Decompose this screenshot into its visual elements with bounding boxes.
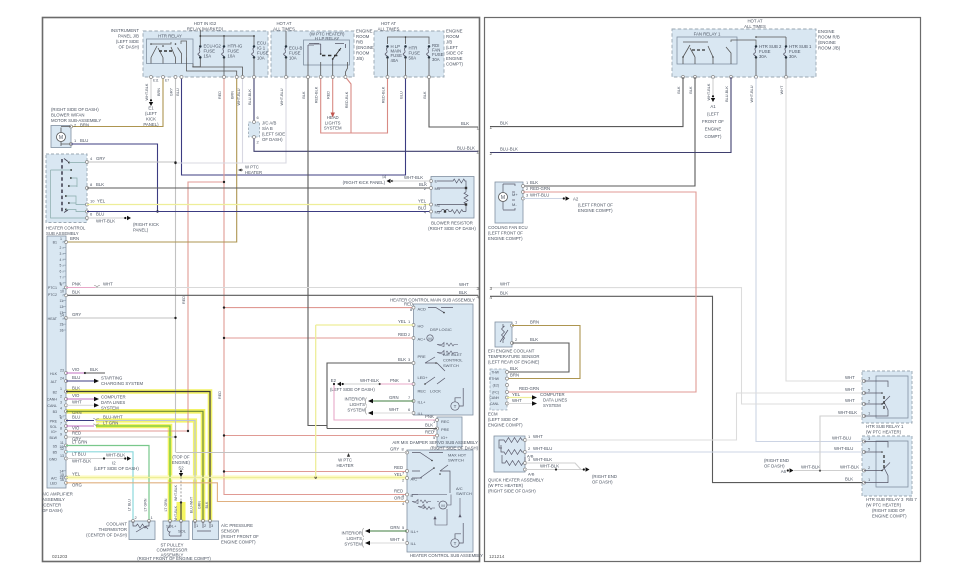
svg-text:10A: 10A xyxy=(289,56,297,61)
svg-text:A/C: A/C xyxy=(51,477,57,481)
svg-text:8: 8 xyxy=(60,281,62,285)
pins along dashed box bottoms xyxy=(150,76,153,79)
svg-text:S/A B: S/A B xyxy=(262,126,273,131)
svg-text:DATA LINES: DATA LINES xyxy=(101,400,125,405)
row: LT GRN to thermistor xyxy=(65,444,68,447)
svg-text:RED: RED xyxy=(72,431,81,436)
svg-text:4: 4 xyxy=(60,258,62,262)
svg-text:10: 10 xyxy=(60,290,64,294)
svg-text:BLOWER W/FAN: BLOWER W/FAN xyxy=(51,113,84,118)
rows: VIO WHT computer data lines xyxy=(65,398,68,401)
svg-text:GRY: GRY xyxy=(390,447,399,452)
svg-text:HEAT: HEAT xyxy=(48,317,58,321)
svg-text:LED+: LED+ xyxy=(418,375,429,380)
row: LT BLU to thermistor xyxy=(65,450,68,453)
pink loop to REC box xyxy=(334,384,437,420)
svg-text:WHT-BLK: WHT-BLK xyxy=(174,505,178,522)
svg-text:PRE: PRE xyxy=(441,427,450,432)
svg-text:1: 1 xyxy=(60,237,62,241)
svg-text:ILL+: ILL+ xyxy=(418,400,427,405)
svg-text:BLOWER RESISTOR: BLOWER RESISTOR xyxy=(431,221,473,226)
svg-text:(LEFT FRONT OF: (LEFT FRONT OF xyxy=(578,203,613,208)
svg-text:WHT-BLK: WHT-BLK xyxy=(145,83,149,100)
svg-text:DSP LOGIC: DSP LOGIC xyxy=(430,327,452,332)
svg-text:CANH: CANH xyxy=(47,398,58,402)
svg-text:YEL: YEL xyxy=(72,472,81,477)
svg-text:GRN: GRN xyxy=(198,501,202,509)
row: VIO/BLK xyxy=(65,372,68,375)
row: YEL long xyxy=(65,476,68,479)
svg-text:LIGHTS: LIGHTS xyxy=(346,536,362,541)
svg-text:BLK: BLK xyxy=(96,182,104,187)
svg-text:RED: RED xyxy=(327,91,331,99)
svg-text:E2: E2 xyxy=(331,378,337,383)
left page border xyxy=(43,18,480,562)
svg-text:WHT: WHT xyxy=(103,282,113,287)
svg-text:RED: RED xyxy=(218,391,222,399)
svg-text:24: 24 xyxy=(60,377,64,381)
svg-text:W PTC: W PTC xyxy=(338,458,352,463)
svg-text:HTR SUB RELAY 1: HTR SUB RELAY 1 xyxy=(866,424,904,429)
svg-text:40A: 40A xyxy=(391,58,399,63)
svg-text:CHARGING SYSTEM: CHARGING SYSTEM xyxy=(101,381,143,386)
svg-text:LOCK: LOCK xyxy=(430,389,441,394)
svg-text:BLW: BLW xyxy=(49,436,57,440)
svg-text:ACD: ACD xyxy=(418,307,427,312)
svg-text:10A: 10A xyxy=(257,56,265,61)
svg-text:(LEFT REAR OF ENGINE): (LEFT REAR OF ENGINE) xyxy=(488,360,540,365)
blower motor box xyxy=(51,126,71,148)
svg-text:121214: 121214 xyxy=(489,554,505,559)
row: RED to vertical 188 xyxy=(65,430,68,433)
svg-text:2: 2 xyxy=(60,246,62,250)
svg-text:THERMISTOR: THERMISTOR xyxy=(99,527,127,532)
svg-text:E7: E7 xyxy=(165,79,169,83)
svg-text:WHT: WHT xyxy=(459,282,469,287)
svg-text:J/B): J/B) xyxy=(356,56,364,61)
svg-text:BLU-BLK: BLU-BLK xyxy=(725,86,729,102)
svg-text:10: 10 xyxy=(90,199,95,204)
svg-text:WHT: WHT xyxy=(500,282,510,287)
svg-text:BLK: BLK xyxy=(845,477,853,482)
pin3 short ground xyxy=(523,198,564,200)
svg-text:(RIGHT SIDE OF DASH): (RIGHT SIDE OF DASH) xyxy=(428,226,476,231)
svg-text:RED-BLK: RED-BLK xyxy=(382,86,386,103)
svg-text:3: 3 xyxy=(60,401,62,405)
svg-text:THW: THW xyxy=(491,371,500,375)
svg-text:COMPT): COMPT) xyxy=(705,134,723,139)
svg-text:(RIGHT KICK: (RIGHT KICK xyxy=(133,222,159,227)
HTR SUB RELAY 1 xyxy=(862,371,912,423)
svg-text:WHT: WHT xyxy=(845,387,855,392)
svg-text:HTR SUB RELAY 3: HTR SUB RELAY 3 xyxy=(866,497,904,502)
svg-text:A/B: A/B xyxy=(528,472,535,477)
svg-text:WHT-BLK: WHT-BLK xyxy=(540,464,559,469)
svg-text:M+: M+ xyxy=(512,192,518,197)
svg-text:OF DASH): OF DASH) xyxy=(592,480,613,485)
svg-text:PTC2: PTC2 xyxy=(48,293,57,297)
svg-text:BLK: BLK xyxy=(419,182,427,187)
svg-text:STARTING: STARTING xyxy=(101,376,123,381)
svg-text:BLU-BLK: BLU-BLK xyxy=(457,146,475,151)
svg-text:15: 15 xyxy=(60,476,64,480)
svg-text:OF DASH): OF DASH) xyxy=(42,508,63,513)
svg-text:PRE: PRE xyxy=(50,420,58,424)
internal pin labels xyxy=(47,241,58,486)
svg-text:WHT-BLK: WHT-BLK xyxy=(360,378,379,383)
wire RED arrow to headlights xyxy=(332,77,334,113)
svg-text:(LEFT SIDE OF DASH): (LEFT SIDE OF DASH) xyxy=(330,387,375,392)
svg-text:HEATER CONTROL: HEATER CONTROL xyxy=(46,226,86,231)
svg-text:BLK: BLK xyxy=(500,121,508,126)
svg-text:M: M xyxy=(428,336,431,341)
svg-text:GRN: GRN xyxy=(390,525,400,530)
svg-text:(RIGHT END: (RIGHT END xyxy=(592,474,617,479)
svg-text:A6: A6 xyxy=(781,469,787,474)
svg-text:(LEFT SIDE: (LEFT SIDE xyxy=(116,39,139,44)
svg-text:2: 2 xyxy=(489,151,492,156)
I4 ground to resistor pin 1 xyxy=(387,179,394,183)
svg-text:ORG: ORG xyxy=(72,483,82,488)
svg-text:HOT AT: HOT AT xyxy=(381,21,396,26)
svg-text:BRN: BRN xyxy=(157,88,161,96)
svg-text:T: T xyxy=(454,404,457,409)
svg-text:4: 4 xyxy=(477,295,480,300)
svg-text:SYSTEM: SYSTEM xyxy=(347,408,365,413)
svg-text:YEL: YEL xyxy=(97,199,106,204)
svg-text:RED: RED xyxy=(425,430,434,435)
svg-text:ENGINE: ENGINE xyxy=(446,56,463,61)
svg-text:WHT: WHT xyxy=(845,398,855,403)
svg-text:ROOM R/B: ROOM R/B xyxy=(818,35,840,40)
svg-text:(CENTER OF DASH): (CENTER OF DASH) xyxy=(86,533,127,538)
svg-text:WHT: WHT xyxy=(72,399,82,404)
A/C pressure sensor xyxy=(193,521,219,540)
svg-text:CONTROL: CONTROL xyxy=(443,358,463,363)
svg-text:ECM: ECM xyxy=(488,412,498,417)
svg-text:ALL TIMES: ALL TIMES xyxy=(378,27,400,32)
svg-text:WHT-BLU: WHT-BLU xyxy=(530,193,549,198)
svg-text:OF DASH): OF DASH) xyxy=(764,464,785,469)
svg-text:021203: 021203 xyxy=(52,554,68,559)
svg-text:HEATER: HEATER xyxy=(245,170,262,175)
HTR SUB RELAY 3 xyxy=(862,436,912,496)
svg-text:ILL+: ILL+ xyxy=(411,529,420,534)
svg-text:ROOM: ROOM xyxy=(356,51,370,56)
svg-text:ALL TIMES: ALL TIMES xyxy=(273,27,295,32)
svg-text:5: 5 xyxy=(60,264,62,268)
svg-text:WHT-BLK: WHT-BLK xyxy=(96,219,115,224)
svg-text:COMPUTER: COMPUTER xyxy=(540,392,565,397)
svg-text:BLK: BLK xyxy=(500,290,508,295)
wire BLK to node 1 xyxy=(429,77,478,127)
svg-text:(LEFT SIDE: (LEFT SIDE xyxy=(262,132,285,137)
HTR relay inner box xyxy=(147,39,194,64)
svg-text:WHT-BLK: WHT-BLK xyxy=(404,175,423,180)
svg-text:SYSTEM: SYSTEM xyxy=(324,126,342,131)
svg-text:WHT: WHT xyxy=(533,434,543,439)
svg-text:YEL: YEL xyxy=(398,319,407,324)
svg-text:(LEFT: (LEFT xyxy=(446,45,458,50)
svg-text:BLK: BLK xyxy=(423,91,427,99)
svg-text:PANEL): PANEL) xyxy=(133,228,149,233)
wire BRN 2 to A/C amplifier pin 1 xyxy=(66,77,237,242)
svg-text:COMPUTER: COMPUTER xyxy=(101,395,126,400)
svg-text:BLK: BLK xyxy=(461,121,469,126)
svg-text:WHT-BLK: WHT-BLK xyxy=(106,453,125,458)
cooling fan ECU xyxy=(495,182,523,223)
switch internals xyxy=(61,159,63,212)
svg-text:BLU: BLU xyxy=(176,88,180,96)
svg-text:GRY: GRY xyxy=(72,312,81,317)
svg-text:COMPT): COMPT) xyxy=(446,62,464,67)
svg-text:WHT-BLU: WHT-BLU xyxy=(834,446,853,451)
svg-text:BLK: BLK xyxy=(510,366,518,371)
svg-text:ENGINE COMPT): ENGINE COMPT) xyxy=(578,208,613,213)
compressor box xyxy=(163,521,189,540)
node3 WHT xyxy=(490,288,864,404)
svg-text:S5: S5 xyxy=(53,445,57,449)
pins on bottom edge xyxy=(682,76,685,79)
svg-text:WHT: WHT xyxy=(389,407,399,412)
svg-text:PTC1: PTC1 xyxy=(48,286,57,290)
svg-text:BLU: BLU xyxy=(72,375,80,380)
svg-text:CANH: CANH xyxy=(489,396,499,400)
svg-text:FRONT OF: FRONT OF xyxy=(702,119,724,124)
svg-text:B3: B3 xyxy=(53,410,57,414)
svg-text:RED-BLK: RED-BLK xyxy=(345,91,349,108)
svg-text:HEATER CONTROL MAIN SUB ASSEMB: HEATER CONTROL MAIN SUB ASSEMBLY xyxy=(390,298,475,303)
svg-text:WHT-BLK: WHT-BLK xyxy=(838,410,857,415)
svg-text:WHT-BLK: WHT-BLK xyxy=(840,465,859,470)
fuse HTR-IG xyxy=(222,45,226,59)
svg-text:7: 7 xyxy=(60,422,62,426)
fuse ECU-IG1 xyxy=(252,45,256,59)
wire WHT-BLK to ground E1 xyxy=(150,77,152,100)
svg-text:R/B 7: R/B 7 xyxy=(906,497,917,502)
wire BRN to blower motor xyxy=(71,77,163,127)
wire WHT-BLU from ECU-B fuse to gray junction xyxy=(176,77,287,163)
heater control sub assembly box xyxy=(46,154,87,223)
svg-text:2: 2 xyxy=(60,395,62,399)
svg-text:REC: REC xyxy=(441,419,450,424)
red loop ECU to ECM xyxy=(507,192,696,392)
pin stubs and numbers xyxy=(60,237,64,482)
wire GRY long vertical xyxy=(175,77,177,452)
svg-text:30A: 30A xyxy=(759,54,767,59)
svg-text:4: 4 xyxy=(489,295,492,300)
svg-text:PNK: PNK xyxy=(72,282,81,287)
row: BLK node4 xyxy=(65,294,68,297)
svg-text:RELAY (MARKED): RELAY (MARKED) xyxy=(187,27,224,32)
svg-text:ENGINE COMPT): ENGINE COMPT) xyxy=(872,514,907,519)
svg-text:SOL: SOL xyxy=(50,425,57,429)
svg-text:LT GRN: LT GRN xyxy=(164,498,168,511)
svg-text:INTERIOR: INTERIOR xyxy=(341,531,362,536)
REC connector box xyxy=(437,417,462,447)
wire RED main tree xyxy=(66,77,437,495)
svg-text:HLK: HLK xyxy=(50,372,58,376)
svg-text:(RIGHT END: (RIGHT END xyxy=(764,458,789,463)
svg-text:ETHW: ETHW xyxy=(489,377,500,381)
svg-text:SYSTEM: SYSTEM xyxy=(543,403,561,408)
svg-text:YEL: YEL xyxy=(394,472,403,477)
svg-text:J/B: J/B xyxy=(446,40,452,45)
svg-text:LIGHTS: LIGHTS xyxy=(325,120,341,125)
svg-text:(W PTC HEATER): (W PTC HEATER) xyxy=(488,483,524,488)
svg-text:BLK: BLK xyxy=(677,86,681,94)
svg-text:(CENTER: (CENTER xyxy=(42,503,61,508)
svg-text:BLU: BLU xyxy=(96,212,104,217)
blower resistor box xyxy=(431,177,474,219)
svg-text:ENGINE COMPT): ENGINE COMPT) xyxy=(221,540,256,545)
svg-text:(ENGINE: (ENGINE xyxy=(356,45,374,50)
svg-text:I2: I2 xyxy=(112,461,116,466)
svg-text:PNK: PNK xyxy=(390,378,399,383)
svg-text:SOL: SOL xyxy=(178,529,187,534)
svg-text:BLK: BLK xyxy=(205,501,209,508)
svg-text:ALT: ALT xyxy=(51,380,58,384)
svg-text:YEL: YEL xyxy=(512,392,521,397)
svg-text:LIGHTS: LIGHTS xyxy=(349,402,365,407)
node4 BLK row xyxy=(66,294,478,296)
vertical wire labels top xyxy=(145,83,427,399)
svg-text:B5: B5 xyxy=(53,451,57,455)
svg-text:YEL: YEL xyxy=(418,199,427,204)
svg-text:BLK: BLK xyxy=(530,337,538,342)
svg-text:(RIGHT SIDE OF DASH): (RIGHT SIDE OF DASH) xyxy=(488,489,536,494)
FAN relay inner box xyxy=(677,37,737,64)
svg-text:(LEFT: (LEFT xyxy=(707,112,719,117)
svg-text:WHT-BLU: WHT-BLU xyxy=(237,88,241,105)
glow highlight under wires xyxy=(66,392,210,522)
svg-text:5: 5 xyxy=(60,415,62,419)
row: ORG xyxy=(65,481,68,484)
svg-text:AIR INLET: AIR INLET xyxy=(443,352,463,357)
svg-text:A/C PRESSURE: A/C PRESSURE xyxy=(221,523,253,528)
svg-text:H LP RELAY: H LP RELAY xyxy=(315,36,340,41)
svg-text:SENSOR: SENSOR xyxy=(221,529,239,534)
svg-text:(W PTC HEATER): (W PTC HEATER) xyxy=(866,503,902,508)
svg-text:1: 1 xyxy=(489,125,492,130)
relay output jogs to pins at 236.7/242.5 xyxy=(187,64,243,78)
svg-text:ENGINE: ENGINE xyxy=(446,29,463,34)
svg-text:BLU-BLK: BLU-BLK xyxy=(500,147,518,152)
svg-text:M-: M- xyxy=(512,202,517,207)
svg-text:7: 7 xyxy=(60,276,62,280)
svg-text:COOLING FAN ECU: COOLING FAN ECU xyxy=(488,225,528,230)
svg-text:30A: 30A xyxy=(432,57,440,62)
fuses xyxy=(754,45,758,59)
svg-text:BRN: BRN xyxy=(70,236,79,241)
row: BLK glow (wire) xyxy=(65,390,68,393)
ECM xyxy=(490,369,507,410)
svg-text:M: M xyxy=(501,195,505,201)
svg-text:PANEL): PANEL) xyxy=(143,122,159,127)
svg-text:BLU: BLU xyxy=(400,91,404,99)
svg-text:HEATER: HEATER xyxy=(336,463,353,468)
wire BLK to cooling fan ECU pin1 xyxy=(523,77,695,186)
svg-text:BLU: BLU xyxy=(72,415,80,420)
lamp bottom xyxy=(451,539,459,547)
svg-text:SYSTEM: SYSTEM xyxy=(101,406,119,411)
wire BLU-BLK node2 xyxy=(490,77,731,153)
svg-text:BRN: BRN xyxy=(231,91,235,99)
svg-text:(TOP OF: (TOP OF xyxy=(172,455,190,460)
svg-text:ROOM J/B): ROOM J/B) xyxy=(818,46,841,51)
svg-text:ENGINE: ENGINE xyxy=(705,127,722,132)
svg-text:(RIGHT FRONT OF ENGINE COMPT): (RIGHT FRONT OF ENGINE COMPT) xyxy=(137,556,211,561)
svg-text:BLU-BLK: BLU-BLK xyxy=(248,89,252,105)
A/C amplifier box xyxy=(47,236,66,488)
svg-text:REC: REC xyxy=(418,389,427,394)
svg-text:WHT-BLU: WHT-BLU xyxy=(832,436,851,441)
row: GRN glow xyxy=(65,410,68,413)
wire BLK node1 xyxy=(490,77,683,127)
svg-text:HTR RELAY: HTR RELAY xyxy=(158,34,182,39)
svg-text:SYSTEM: SYSTEM xyxy=(344,542,362,547)
svg-text:R/B: R/B xyxy=(356,40,363,45)
row: BLU / BLU-WHT xyxy=(65,419,68,422)
svg-text:BRN: BRN xyxy=(510,373,519,378)
interior lights arrows upper xyxy=(373,400,414,402)
svg-text:ROOM: ROOM xyxy=(446,34,460,39)
engine room R/B dashed box xyxy=(672,29,816,77)
svg-text:ENGINE COMPT): ENGINE COMPT) xyxy=(488,423,523,428)
svg-text:AC+: AC+ xyxy=(418,337,427,342)
GRY row to damper switch xyxy=(176,452,408,454)
svg-text:M: M xyxy=(59,135,63,141)
svg-text:WHT-BLK: WHT-BLK xyxy=(72,458,91,463)
svg-text:GRN: GRN xyxy=(389,395,399,400)
row: PNK/WHT node3 xyxy=(65,286,68,289)
svg-text:WHT-BLU: WHT-BLU xyxy=(533,446,552,451)
svg-text:ENGINE COMPT): ENGINE COMPT) xyxy=(488,236,523,241)
svg-text:(LEFT SIDE OF: (LEFT SIDE OF xyxy=(488,417,519,422)
svg-text:GND: GND xyxy=(49,458,57,462)
svg-text:B1: B1 xyxy=(53,241,57,245)
svg-text:IG+: IG+ xyxy=(51,430,57,434)
svg-text:BLK: BLK xyxy=(90,367,98,372)
svg-text:RED: RED xyxy=(404,302,413,307)
svg-text:W PTC: W PTC xyxy=(245,165,259,170)
vertical wire labels above bottom boxes xyxy=(128,496,210,513)
svg-text:(LEFT SIDE OF DASH): (LEFT SIDE OF DASH) xyxy=(94,466,139,471)
svg-text:3: 3 xyxy=(489,286,492,291)
svg-text:T: T xyxy=(454,541,457,546)
svg-text:ENGINE: ENGINE xyxy=(818,29,835,34)
svg-text:BRN: BRN xyxy=(530,320,539,325)
row: VIO / LT GRN glow xyxy=(65,425,68,428)
svg-text:B: B xyxy=(411,493,414,498)
svg-text:KICK: KICK xyxy=(146,117,156,122)
svg-text:M2: M2 xyxy=(435,203,441,208)
row: WHT-BLK ground I2 xyxy=(65,457,68,460)
svg-text:(LEFT FRONT OF: (LEFT FRONT OF xyxy=(488,231,523,236)
svg-text:INSTRUMENT: INSTRUMENT xyxy=(111,28,140,33)
row: pin1 BRN (wire drawn in LWIRES) xyxy=(65,241,68,244)
svg-text:ORG: ORG xyxy=(394,496,404,501)
svg-text:BLU-WHT: BLU-WHT xyxy=(190,496,194,513)
svg-text:OF DASH): OF DASH) xyxy=(118,45,139,50)
svg-text:LED: LED xyxy=(50,482,57,486)
vertical labels xyxy=(677,83,784,102)
svg-text:WHT-BLU: WHT-BLU xyxy=(280,88,284,105)
wire BLK from middle box down to heater control main pin3 xyxy=(308,77,414,426)
svg-text:BLK: BLK xyxy=(689,86,693,94)
quick heater assembly xyxy=(494,436,525,472)
W PTC HEATER pointer xyxy=(239,169,243,171)
